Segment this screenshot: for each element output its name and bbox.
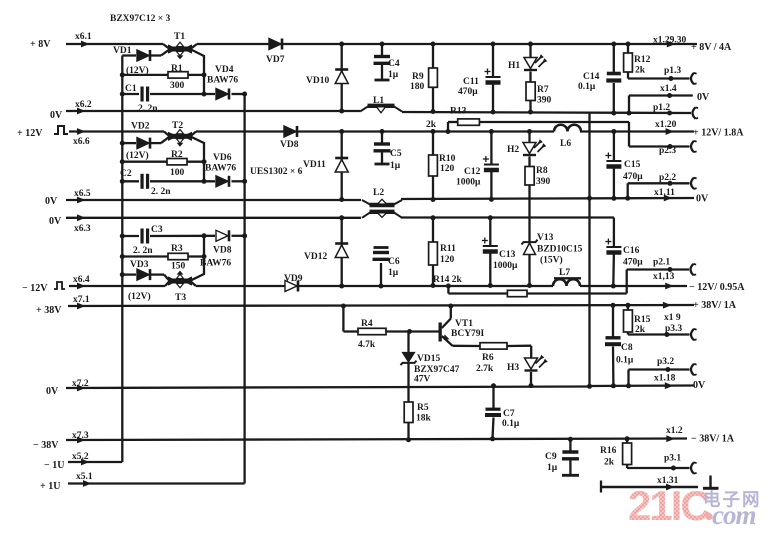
label (12V) T3 [128,291,151,302]
connector p1.2 [667,107,698,118]
wire p2.3 line [629,144,690,149]
wire C1 row [122,93,244,95]
svg-text:x1.2: x1.2 [666,426,683,436]
label L2 [373,188,384,198]
svg-text:C7: C7 [503,409,515,419]
resistor R1 [168,72,188,78]
svg-text:390: 390 [536,177,551,187]
svg-text:R3: R3 [171,244,183,254]
svg-text:2k: 2k [426,120,437,130]
svg-text:390: 390 [537,96,552,106]
svg-text:VD10: VD10 [306,76,329,86]
label BAW76 VD6 [205,164,236,174]
svg-text:− 38V: − 38V [33,440,59,451]
wire 0V rail (x6.3) [66,216,614,219]
label R7 [537,85,549,95]
label R15 [634,315,651,325]
svg-text:VD1: VD1 [113,46,132,56]
ground symbol [703,476,719,489]
diode VD12 [335,218,348,286]
svg-text:18k: 18k [416,414,432,424]
label 1000u C12 [456,178,481,188]
label R9 [412,72,424,82]
svg-text:470μ: 470μ [623,258,643,268]
label x5.1 [76,472,93,482]
svg-text:(12V): (12V) [128,291,151,302]
capacitor C9 [562,437,579,476]
capacitor C5 [374,129,391,164]
wire +12V rail [69,130,694,132]
svg-text:BZX97C12 × 3: BZX97C12 × 3 [110,14,171,24]
label x6.2 [75,100,92,110]
svg-text:R6: R6 [482,353,494,363]
svg-text:2.7k: 2.7k [476,364,494,374]
svg-text:1000μ: 1000μ [456,178,481,188]
label 180 [410,82,425,92]
resistor R4 [341,304,439,335]
label 2.7k [476,364,494,374]
label VD9 [284,274,303,284]
label VD11 [303,160,326,170]
svg-text:C5: C5 [390,149,402,159]
capacitor C2 [142,174,148,189]
svg-text:0V: 0V [693,380,706,391]
label BAW76 VD8 [200,259,231,269]
label BCY79I [451,329,485,339]
svg-text:H1: H1 [508,61,520,71]
svg-text:p3.2: p3.2 [657,357,674,367]
connector p3.3 [691,329,697,340]
node -1U input [44,459,90,471]
svg-text:− 38V/ 1A: − 38V/ 1A [691,434,735,445]
label 0.1u C7 [502,419,520,429]
svg-text:300: 300 [170,81,185,91]
svg-text:H3: H3 [507,363,519,373]
label C3 [151,225,163,235]
label C5 [390,149,402,159]
wire p2.1 line [627,267,689,272]
svg-text:R9: R9 [412,72,424,82]
svg-text:VD12: VD12 [304,252,327,262]
resistor R14 [446,270,627,297]
label R5 [417,403,429,413]
capacitor C16 [605,218,621,289]
label 2k R16 [604,458,615,468]
label L6 [560,139,571,149]
svg-text:C6: C6 [388,257,400,267]
label C16 [623,246,640,256]
connector p2.1 [691,264,697,275]
node 0V input x7.2 [46,385,86,397]
diode VD1 [122,50,169,61]
capacitor C7 [485,383,501,441]
resistor R9 [429,42,438,115]
svg-text:0V: 0V [49,216,62,227]
diode VD9 [285,281,298,292]
label 0.1u C14 [578,82,596,92]
svg-text:120: 120 [440,164,455,174]
svg-text:VD9: VD9 [284,274,303,284]
svg-text:470μ: 470μ [623,172,643,182]
svg-text:150: 150 [171,262,186,272]
label 120 R11 [440,255,455,265]
label x7.1 [73,295,90,305]
label BAW76 VD4 [207,76,238,86]
top label BZX97C12 x3 [110,14,171,24]
label x1.4 [660,84,677,94]
inductor L6 [554,125,581,132]
label C8 [621,343,633,353]
svg-text:C13: C13 [499,250,516,260]
node x1.18 output 0V [654,374,706,392]
svg-text:com: com [712,500,756,530]
wire +1U line [68,482,245,484]
label R2 [171,150,183,160]
svg-text:V13: V13 [537,233,554,243]
svg-text:+ 8V / 4A: + 8V / 4A [691,42,732,53]
label R10 [439,154,456,164]
diode VD6 [216,176,229,187]
label VD3 [130,260,149,270]
watermark 21IC [628,482,710,529]
wire 0V drop bus [588,113,590,387]
watermark chinese [703,490,762,510]
dot 0V-bus corner [587,384,592,389]
svg-text:2. 2n: 2. 2n [151,187,171,197]
svg-text:R8: R8 [536,166,548,176]
wire 0V rail (x6.5 to x1.11) [66,198,694,200]
inductor L1 [360,106,402,113]
wire p1.3 line [628,76,690,81]
label BZD10C15 [537,245,583,255]
watermark dot [705,513,712,520]
svg-text:VD7: VD7 [266,55,285,65]
wire p3.1 line [627,466,689,471]
wire R1 row [122,74,204,76]
label C7 [503,409,515,419]
label C6 [388,257,400,267]
svg-text:+ 1U: + 1U [40,481,60,492]
node x1.11 output 0V [654,188,709,205]
label 1000u C13 [493,261,518,271]
svg-text:p2.2: p2.2 [659,173,676,183]
diode VD7 [269,39,282,50]
label (12V) T2 [126,150,149,161]
svg-text:R7: R7 [537,85,549,95]
resistor R15 [624,303,633,335]
svg-text:C8: C8 [621,343,633,353]
svg-text:x1.4: x1.4 [660,84,677,94]
wire R3 row [122,255,204,257]
label V13 [537,233,554,243]
label 0V x1.4 [697,92,710,103]
svg-text:VT1: VT1 [455,319,473,329]
node -12V input [22,282,86,294]
svg-text:R10: R10 [439,154,456,164]
diode VD4 [216,89,229,100]
label H1 [508,61,520,71]
node 0V input x6.3 [49,214,86,227]
label H2 [507,145,519,155]
LED H1 [524,42,547,83]
wire R2 row [122,161,204,163]
wire p2.2 spur [625,181,689,201]
svg-text:x6.6: x6.6 [73,137,90,147]
svg-text:VD8: VD8 [280,140,299,150]
svg-text:p2.1: p2.1 [653,258,670,268]
label x5.2 [72,452,89,462]
label 1u C5 [390,161,401,171]
svg-text:+ 38V/ 1A: + 38V/ 1A [693,300,737,311]
capacitor C14 [606,42,621,116]
capacitor C1 [142,87,148,102]
node +8V input [30,39,90,50]
label 1u C9 [547,463,558,473]
svg-text:L1: L1 [373,96,384,106]
label VD7 [266,55,285,65]
svg-text:C14: C14 [583,72,600,82]
label UES1302 x6 [250,167,303,177]
label p3.2 [657,357,674,367]
label x6.5 [74,189,91,199]
svg-text:H2: H2 [507,145,519,155]
label 390 R8 [536,177,551,187]
label 390 R7 [537,96,552,106]
resistor R10 [429,129,438,202]
svg-text:0V: 0V [50,110,63,121]
svg-text:VD2: VD2 [131,122,150,132]
svg-text:BAW76: BAW76 [205,164,236,174]
label R11 [440,244,456,254]
label H3 [507,363,519,373]
label x7.2 [72,379,89,389]
wire +8V rail [66,43,697,45]
label x6.1 [75,32,92,42]
label 2k R12 [635,66,646,76]
resistor R13 [446,119,630,147]
wire -38V rail [66,439,687,441]
resistor R12 [624,42,633,79]
wire T2 right stub [191,137,204,182]
label VD10 [306,76,329,86]
connector p2.2 [691,178,697,189]
svg-text:T3: T3 [175,293,186,303]
svg-text:L2: L2 [373,188,384,198]
inductor L2 upper winding [362,199,402,205]
svg-text:x7.1: x7.1 [73,295,90,305]
label 0.1u C8 [616,356,634,366]
label R16 [600,446,617,456]
svg-text:470μ: 470μ [458,87,478,97]
label 150 [171,262,186,272]
svg-text:47V: 47V [414,375,431,385]
label 2.2n C1 [138,104,158,114]
label 2k R13 [426,120,437,130]
svg-text:VD11: VD11 [303,160,326,170]
wire C3 row [122,235,244,237]
label R4 [361,319,373,329]
capacitor C3 [142,229,148,244]
svg-text:0V: 0V [46,386,59,397]
svg-text:R14 2k: R14 2k [433,275,462,285]
label R3 [171,244,183,254]
label VD8 snubber [213,246,232,256]
node x1.20 output +12V [655,120,744,139]
transistor VT1 [439,304,454,346]
svg-text:1μ: 1μ [388,70,399,80]
label x7.3 [72,431,89,441]
wire C2 row [122,180,244,182]
svg-text:R2: R2 [171,150,183,160]
label p2.1 [653,258,670,268]
svg-text:C1: C1 [125,84,137,94]
resistor R6 [453,343,532,349]
label R1 [171,64,183,74]
svg-text:p1.3: p1.3 [664,66,681,76]
svg-text:p3.1: p3.1 [664,454,681,464]
resistor R8 [525,167,534,242]
svg-text:120: 120 [440,255,455,265]
svg-text:T1: T1 [174,32,185,42]
svg-text:0V: 0V [45,196,58,207]
svg-text:R16: R16 [600,446,617,456]
label 2.2n C3 [133,246,153,256]
svg-text:C4: C4 [388,59,400,69]
resistor R5 [404,402,413,442]
diode VD3 [122,269,169,280]
device T2 [164,130,196,147]
label C12 [464,167,481,177]
capacitor C12 [483,129,499,202]
label x6.6 [73,137,90,147]
label VD12 [304,252,327,262]
label 47V [414,375,431,385]
svg-text:100: 100 [170,168,185,178]
diode VD11 [335,132,348,200]
svg-text:x1 9: x1 9 [664,313,681,323]
label C13 [499,250,516,260]
svg-text:BCY79I: BCY79I [451,329,485,339]
label p3.3 [665,324,682,334]
svg-text:x6.3: x6.3 [74,224,91,234]
svg-text:1μ: 1μ [388,268,399,278]
label VD1 [113,46,132,56]
label VD4 [215,65,234,75]
inductor L2 lower winding [362,212,402,218]
svg-text:p2.3: p2.3 [659,146,676,156]
svg-text:x1.18: x1.18 [654,374,676,384]
label p3.1 [664,454,681,464]
label C2 [120,169,132,179]
svg-text:(15V): (15V) [540,255,563,266]
svg-text:C16: C16 [623,246,640,256]
label R13 [450,107,467,117]
svg-text:(12V): (12V) [126,150,149,161]
svg-text:0V: 0V [696,194,709,205]
resistor R2 [167,159,187,165]
label 1u C4 [388,70,399,80]
label VD15 [417,354,440,364]
svg-text:21IC: 21IC [628,482,710,529]
svg-text:x6.4: x6.4 [73,275,90,285]
svg-text:2. 2n: 2. 2n [138,104,158,114]
label L7 [559,268,570,278]
svg-text:0.1μ: 0.1μ [578,82,596,92]
svg-text:R13: R13 [450,107,467,117]
capacitor C4 [374,42,391,81]
zener V13 [522,240,538,288]
label (12V) T1 [126,65,149,76]
diode VD8 snubber [216,230,229,241]
svg-text:1μ: 1μ [390,161,401,171]
svg-text:BZD10C15: BZD10C15 [537,245,583,255]
svg-text:x1,13: x1,13 [653,272,675,282]
wire x1.31 line [601,481,698,493]
svg-text:p3.3: p3.3 [665,324,682,334]
svg-text:0V: 0V [697,92,710,103]
svg-text:− 12V: − 12V [22,283,48,294]
svg-text:2. 2n: 2. 2n [133,246,153,256]
svg-text:R15: R15 [634,315,651,325]
label x1.31 [657,476,679,486]
node x1.2 output -38V [666,426,735,445]
wire x1.4 spur [627,93,693,116]
node 0V input x6.2 [50,108,86,121]
wire T1 right stub [191,50,204,95]
label 2.2n C2 [151,187,171,197]
resistor R16 [623,436,632,468]
diode VD8 rail [284,126,297,137]
svg-text:T2: T2 [172,121,183,131]
svg-text:0.1μ: 0.1μ [616,356,634,366]
connector p3.1 [691,462,697,473]
label 100 [170,168,185,178]
node -38V input [33,437,86,451]
wire -1U line [68,461,122,463]
svg-text:1000μ: 1000μ [493,261,518,271]
label 470u C16 [623,258,643,268]
label 1u C6 [388,268,399,278]
svg-text:C12: C12 [464,167,481,177]
connector p2.3 [691,141,697,152]
svg-text:x7.3: x7.3 [72,431,89,441]
svg-text:BZX97C47: BZX97C47 [414,365,460,375]
label T1 [174,32,185,42]
svg-text:+ 12V/ 1.8A: + 12V/ 1.8A [693,128,744,139]
svg-text:C15: C15 [624,160,641,170]
svg-text:R4: R4 [361,319,373,329]
svg-text:x7.2: x7.2 [72,379,89,389]
svg-text:VD3: VD3 [130,260,149,270]
svg-text:C11: C11 [463,77,479,87]
node x1.13 output -12V [653,272,745,293]
capacitor C13 [482,215,498,288]
junction dots T2 block [120,141,247,184]
resistor R7 [526,82,535,115]
wire +38V rail [68,305,694,306]
wire left snubber bus [121,56,123,463]
dots clamp column [339,42,344,289]
label C4 [388,59,400,69]
svg-text:C3: C3 [151,225,163,235]
label R14 2k [433,275,462,285]
inductor L7 [553,278,581,286]
svg-text:+ 12V: + 12V [17,128,43,139]
svg-text:x5.2: x5.2 [72,452,89,462]
label 4.7k [358,340,376,350]
capacitor C6 [373,248,390,289]
svg-text:VD15: VD15 [417,354,440,364]
